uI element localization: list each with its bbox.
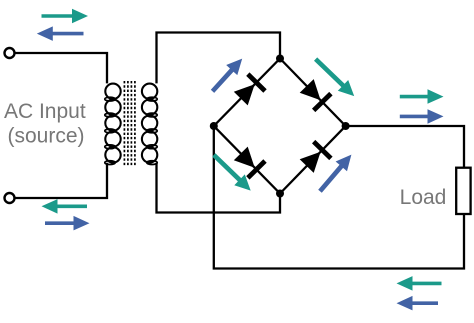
wire: bridge + output to load top	[346, 126, 464, 168]
svg-text:Load: Load	[400, 186, 447, 209]
svg-text:(source): (source)	[7, 124, 84, 147]
arrow: return current negative half (blue, right)	[45, 216, 90, 231]
wire: top AC terminal to primary top	[15, 53, 107, 83]
arrow: D1 conduction negative half (blue, up-right)	[211, 59, 242, 93]
terminal: AC input top	[5, 48, 15, 58]
svg-text:AC Input: AC Input	[4, 100, 86, 123]
arrow: load current positive half (teal, right)	[400, 89, 444, 104]
diode D2 (top node to right node)	[300, 79, 321, 100]
terminal: AC input bottom	[5, 193, 15, 203]
wire: secondary top to bridge top node	[157, 33, 281, 84]
node: bridge top junction	[276, 55, 284, 63]
arrow: load current negative half (blue, right)	[400, 109, 444, 124]
node: bridge left junction	[210, 122, 218, 130]
wire: load bottom to bridge - output (left node)	[214, 126, 464, 269]
node: bridge bottom junction	[276, 190, 284, 198]
arrow: D2 conduction positive half (teal, down-right)	[314, 57, 354, 96]
resistor: Load	[456, 168, 470, 214]
wire: secondary bottom to bridge bottom node	[157, 163, 281, 213]
diode D1 (left node to top node)	[234, 84, 255, 105]
arrow: bottom rail negative half (blue, left)	[397, 296, 439, 311]
wire: bridge diamond edges	[214, 59, 346, 194]
wire: primary bottom to bottom AC terminal	[15, 163, 107, 198]
node: bridge right junction	[342, 122, 350, 130]
arrow: return current positive half (teal, left)	[42, 199, 88, 214]
arrow: input current negative half (blue, left)	[37, 26, 84, 41]
diode D4 (bottom node to right node)	[300, 152, 321, 173]
arrow: input current positive half (teal, right)	[42, 9, 89, 23]
arrow: D4 conduction negative half (blue, up-right)	[318, 155, 351, 193]
arrow: bottom rail positive half (teal, left)	[397, 276, 442, 291]
diode D3 (left node to bottom node)	[234, 147, 255, 168]
transformer T1 core	[123, 81, 125, 166]
transformer T1 primary winding	[105, 84, 120, 99]
transformer T1 secondary winding	[142, 84, 157, 99]
arrow: D3 conduction positive half (teal, down-right)	[212, 153, 251, 190]
